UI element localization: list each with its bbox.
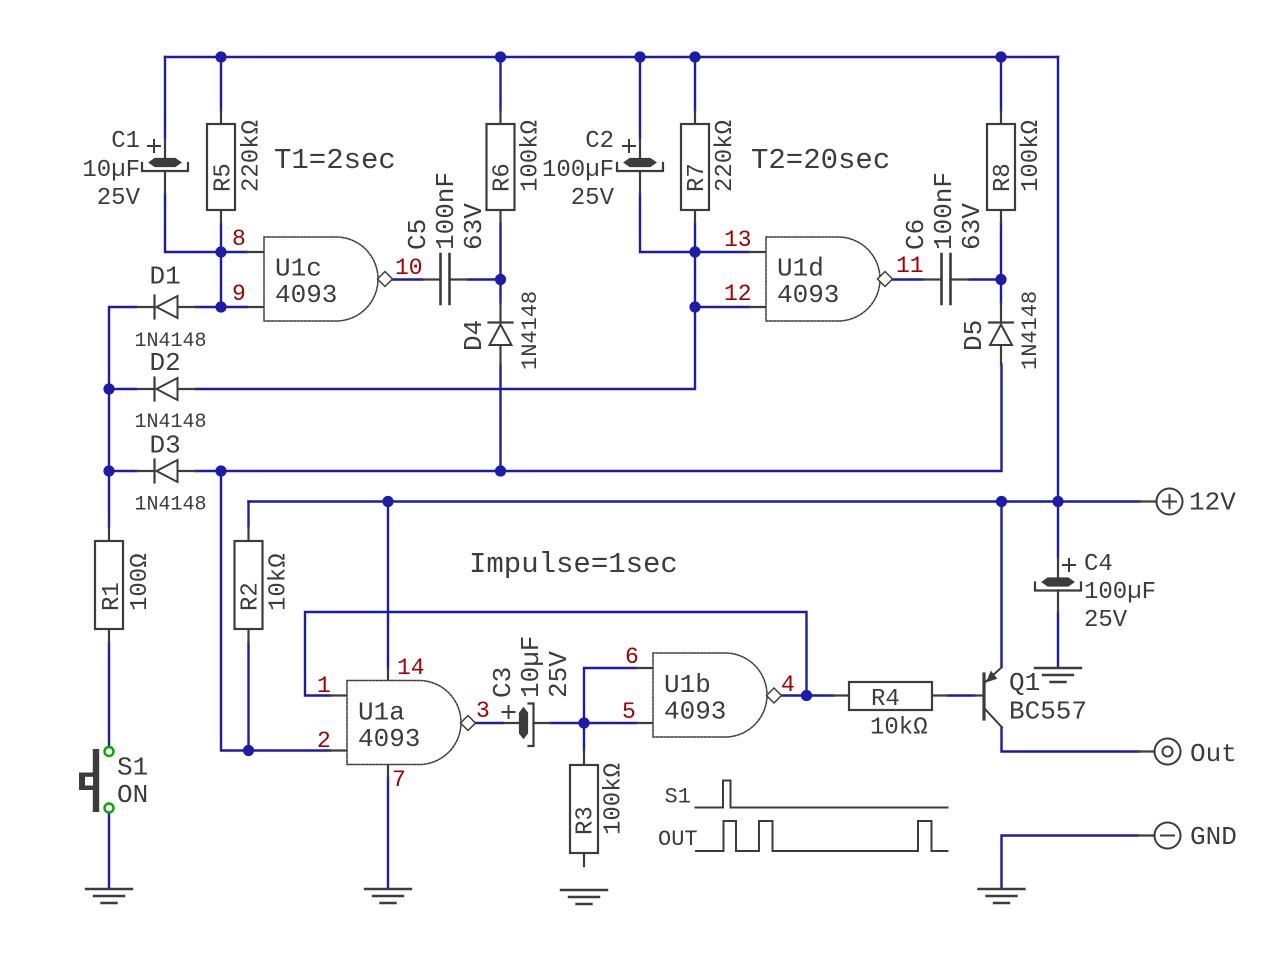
junction bus R8	[995, 51, 1006, 62]
op-amp U1c NAND gate	[247, 237, 393, 321]
svg-text:4093: 4093	[664, 697, 726, 727]
value label D3	[135, 431, 207, 517]
wire R7 bottom to pin13 node	[694, 224, 696, 253]
svg-text:12V: 12V	[1189, 488, 1236, 518]
svg-text:7: 7	[392, 767, 406, 793]
svg-text:100kΩ: 100kΩ	[1018, 120, 1045, 192]
ground below U1a pin7	[365, 889, 411, 903]
value label U1d	[777, 254, 839, 311]
svg-text:S1: S1	[665, 785, 691, 810]
svg-text:D5: D5	[959, 320, 989, 351]
wire VCC top bus	[165, 56, 1058, 58]
diode D1	[136, 296, 196, 319]
svg-text:100µF: 100µF	[1084, 579, 1156, 606]
resistor R8	[987, 111, 1015, 224]
svg-text:10kΩ: 10kΩ	[870, 715, 928, 742]
value label R2 rotated	[238, 553, 293, 611]
svg-text:4093: 4093	[777, 280, 839, 310]
value label D1	[135, 262, 207, 354]
wire S1 to ground	[108, 814, 110, 889]
wire pin7 to ground	[387, 778, 389, 888]
svg-text:25V: 25V	[571, 185, 615, 212]
node S1 pin top green	[105, 747, 114, 756]
junction node pin13	[689, 246, 700, 257]
svg-text:9: 9	[232, 281, 246, 307]
wire 12V rail	[249, 500, 1140, 502]
svg-text:C3: C3	[488, 667, 518, 698]
waveform S1 trace	[696, 781, 948, 808]
wire C3 right to pin5 node	[551, 722, 584, 724]
svg-text:U1c: U1c	[275, 254, 322, 284]
value label D4 rotated	[459, 291, 543, 370]
value label D2	[135, 348, 207, 434]
svg-text:GND: GND	[1190, 822, 1237, 852]
svg-text:OUT: OUT	[658, 827, 698, 852]
value label R8 rotated	[990, 120, 1045, 192]
junction pin2 R2	[243, 745, 254, 756]
wire D3 anode to D5 bottom	[196, 365, 1002, 472]
wire R8 bottom to C6 node	[1000, 224, 1002, 280]
wire Q1 collector to Out	[1002, 728, 1140, 752]
junction pin3 C3 R3	[578, 717, 589, 728]
diode D4	[489, 303, 513, 365]
svg-text:R8: R8	[990, 163, 1017, 192]
value label R7 rotated	[684, 120, 739, 192]
svg-text:13: 13	[724, 227, 752, 253]
svg-text:10kΩ: 10kΩ	[266, 553, 293, 611]
transistor Q1	[974, 667, 1002, 728]
node S1 pin bottom green	[105, 804, 114, 813]
svg-text:U1a: U1a	[358, 698, 405, 728]
wire pin3 node up to pin6	[584, 668, 636, 723]
wire pin9 stub	[221, 306, 247, 308]
svg-text:100µF: 100µF	[542, 157, 614, 184]
svg-text:R5: R5	[211, 163, 238, 192]
capacitor C1	[142, 138, 188, 194]
svg-text:Out: Out	[1190, 739, 1237, 769]
junction U1b output feedback	[801, 690, 812, 701]
wire C6 node to D5 top	[1000, 280, 1002, 304]
svg-text:220kΩ: 220kΩ	[239, 120, 266, 192]
svg-text:C2: C2	[585, 128, 614, 155]
svg-text:R4: R4	[871, 686, 900, 713]
capacitor C6	[922, 254, 969, 304]
junction node pin8	[215, 246, 226, 257]
svg-text:D4: D4	[459, 320, 489, 351]
wire C6 right to node	[969, 278, 1001, 280]
wire D2 cathode from left rail	[109, 388, 136, 390]
svg-text:100kΩ: 100kΩ	[601, 763, 628, 835]
junction C6-R8-D5	[995, 274, 1006, 285]
svg-text:10µF: 10µF	[82, 157, 140, 184]
svg-text:D1: D1	[150, 262, 181, 292]
wire D3 cathode from left rail	[109, 470, 136, 472]
wire D1 cathode to node9	[196, 306, 221, 308]
svg-text:S1: S1	[117, 753, 148, 783]
wire bus drop to C2	[639, 57, 641, 138]
junction node pin12	[689, 301, 700, 312]
junction left rail D2	[103, 383, 114, 394]
svg-text:11: 11	[896, 253, 924, 279]
value label U1a	[358, 698, 420, 755]
wire bus drop to R8	[1000, 57, 1002, 111]
value label Q1	[1009, 668, 1087, 727]
svg-text:63V: 63V	[957, 203, 987, 250]
wire 12V rail to pin14	[387, 502, 389, 668]
resistor R1	[95, 527, 123, 643]
ground below R3	[561, 890, 607, 904]
junction C5-R6-D4	[495, 274, 506, 285]
wire U1b output to R4	[782, 694, 834, 696]
capacitor C2	[617, 138, 663, 194]
svg-text:100Ω: 100Ω	[127, 553, 154, 611]
wire R6 bottom to C5 node	[499, 224, 501, 280]
svg-text:220kΩ: 220kΩ	[712, 120, 739, 192]
wire 12V rail to C4	[1057, 502, 1059, 559]
junction 12V rail pin14	[382, 496, 393, 507]
svg-text:25V: 25V	[544, 651, 574, 698]
junction node pin9	[215, 301, 226, 312]
wire feedback U1b out to U1a pin1	[305, 612, 807, 696]
value label R3 rotated	[573, 763, 628, 835]
wire bus drop to R5	[220, 57, 222, 111]
wire pin8 stub	[221, 251, 247, 253]
op-amp U1d NAND gate	[749, 237, 893, 321]
wire R4 to Q1 base	[948, 694, 974, 696]
wire C2 bottom to pin13 node	[640, 194, 695, 252]
svg-text:U1d: U1d	[777, 254, 824, 284]
wire D1 anode to left rail	[109, 307, 136, 527]
capacitor C5	[422, 254, 468, 304]
resistor R6	[487, 111, 515, 224]
value label C3 rotated	[488, 636, 574, 698]
waveform OUT trace	[696, 821, 948, 851]
svg-text:C5: C5	[403, 219, 433, 250]
svg-text:R1: R1	[99, 582, 126, 611]
wire node D3 down to pin2	[221, 471, 330, 751]
ground below S1	[86, 889, 132, 903]
svg-text:R6: R6	[490, 163, 517, 192]
wire 12V rail to Q1 emitter	[1000, 502, 1002, 667]
wire pin5 stub	[584, 722, 636, 724]
value label U1b	[664, 670, 726, 727]
wire U1a output to C3	[476, 722, 504, 724]
value label C4	[1084, 551, 1156, 634]
wire C4 bottom to ground	[1057, 613, 1059, 667]
wire bus right drop to 12V rail	[1057, 57, 1059, 502]
value label D5 rotated	[959, 291, 1043, 370]
svg-text:100kΩ: 100kΩ	[518, 120, 545, 192]
junction left rail D3	[103, 465, 114, 476]
svg-text:2: 2	[317, 728, 331, 754]
svg-text:3: 3	[476, 698, 490, 724]
value label U1c	[275, 254, 337, 311]
wire node8 to node9	[220, 252, 222, 307]
value label R5 rotated	[211, 120, 266, 192]
wire D4 bottom to D3 net	[499, 365, 501, 472]
svg-text:U1b: U1b	[664, 670, 711, 700]
resistor R4	[833, 682, 948, 710]
svg-text:14: 14	[397, 655, 425, 681]
svg-text:D3: D3	[150, 431, 181, 461]
value label C1	[82, 128, 140, 212]
svg-text:1: 1	[317, 673, 331, 699]
ground below C4	[1035, 668, 1081, 682]
svg-text:R7: R7	[684, 163, 711, 192]
svg-text:63V: 63V	[459, 203, 489, 250]
junction bus R7	[689, 51, 700, 62]
svg-text:D2: D2	[150, 348, 181, 378]
diode D5	[989, 303, 1013, 365]
junction 12V rail Q1 emitter	[996, 496, 1007, 507]
wire pin12 stub	[695, 306, 749, 308]
svg-text:12: 12	[724, 281, 752, 307]
svg-text:C1: C1	[111, 128, 140, 155]
resistor R3	[570, 750, 598, 866]
junction bus C2	[634, 51, 645, 62]
diode D2	[136, 378, 196, 401]
value label C6 rotated	[901, 172, 987, 250]
resistor R7	[681, 111, 709, 224]
junction bus R6	[495, 51, 506, 62]
wire R2 bottom to pin2 node	[247, 643, 249, 751]
svg-text:T2=20sec: T2=20sec	[751, 144, 890, 177]
junction bus R5	[215, 51, 226, 62]
wire D2 anode to pin12 node	[196, 307, 695, 389]
wire U1d output to C6	[893, 278, 923, 280]
wire C1 bottom to pin8 node	[165, 194, 221, 252]
svg-text:4: 4	[781, 672, 795, 698]
svg-text:4093: 4093	[358, 724, 420, 754]
svg-text:T1=2sec: T1=2sec	[274, 144, 396, 177]
svg-text:Impulse=1sec: Impulse=1sec	[469, 548, 678, 581]
wire node13 to node12	[694, 252, 696, 307]
wire R5 bottom to pin8 node	[220, 224, 222, 253]
capacitor C4	[1035, 558, 1081, 613]
wire GND terminal to ground	[1002, 836, 1138, 889]
node Out terminal	[1137, 739, 1181, 765]
junction D3 net pin2 branch	[215, 465, 226, 476]
svg-text:C6: C6	[901, 219, 931, 250]
node GND terminal	[1138, 823, 1181, 849]
svg-text:10µF: 10µF	[516, 636, 546, 698]
svg-text:R3: R3	[573, 806, 600, 835]
svg-text:ON: ON	[117, 780, 148, 810]
svg-text:6: 6	[625, 644, 639, 670]
value label R4	[870, 686, 928, 742]
wire C5 node to D4 top	[499, 280, 501, 304]
wire R2 top to 12V rail	[247, 502, 249, 528]
node 12V supply terminal	[1140, 489, 1183, 515]
svg-text:C4: C4	[1084, 551, 1113, 578]
wire bus drop to R6	[499, 57, 501, 111]
svg-text:8: 8	[232, 226, 246, 252]
wire U1c output to C5	[393, 278, 422, 280]
wire pin13 stub	[695, 251, 749, 253]
wire bus drop to R7	[694, 57, 696, 111]
svg-text:1N4148: 1N4148	[135, 494, 207, 517]
value label R1 rotated	[99, 553, 154, 611]
diode D3	[136, 460, 196, 483]
ground below GND terminal	[979, 889, 1025, 903]
capacitor C3	[503, 704, 552, 747]
svg-text:10: 10	[395, 255, 423, 281]
resistor R5	[207, 111, 235, 224]
op-amp U1a NAND gate	[330, 668, 476, 779]
svg-text:5: 5	[622, 699, 636, 725]
svg-text:100nF: 100nF	[929, 172, 959, 250]
resistor R2	[235, 527, 263, 643]
wire pin5 node down to R3	[583, 723, 585, 750]
wire R1 bottom to S1	[108, 643, 110, 747]
svg-text:25V: 25V	[97, 185, 141, 212]
wire C5 right to node	[468, 278, 501, 280]
wire bus drop to C1	[164, 57, 166, 138]
op-amp U1b NAND gate	[636, 653, 782, 737]
svg-text:Q1: Q1	[1009, 668, 1040, 698]
junction D3 net D4 branch	[495, 465, 506, 476]
junction 12V rail C4	[1052, 496, 1063, 507]
value label R6 rotated	[490, 120, 545, 192]
value label C5 rotated	[403, 172, 489, 250]
svg-text:25V: 25V	[1084, 607, 1128, 634]
value label C2	[542, 128, 615, 212]
svg-text:R2: R2	[238, 582, 265, 611]
svg-text:4093: 4093	[275, 280, 337, 310]
svg-text:1N4148: 1N4148	[1018, 291, 1043, 370]
svg-text:BC557: BC557	[1009, 697, 1087, 727]
svg-text:100nF: 100nF	[431, 172, 461, 250]
switch S1 pushbutton	[79, 749, 99, 812]
svg-text:1N4148: 1N4148	[518, 291, 543, 370]
value label S1 switch	[117, 753, 148, 811]
